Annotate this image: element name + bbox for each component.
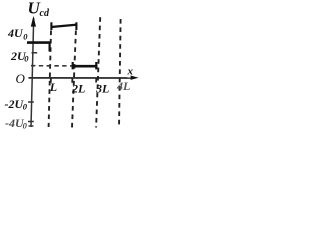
x-axis arrowhead bbox=[131, 76, 139, 80]
svg-text:0: 0 bbox=[23, 31, 28, 41]
segment left end bar bbox=[72, 62, 74, 69]
svg-text:0: 0 bbox=[24, 54, 29, 64]
svg-text:4L: 4L bbox=[116, 79, 130, 93]
svg-text:0: 0 bbox=[23, 102, 28, 112]
x-axis bbox=[29, 77, 133, 79]
dashed horizontal reference line at 2U0 level bbox=[31, 65, 72, 67]
svg-text:0: 0 bbox=[23, 120, 28, 130]
dashed vertical line at 4L bbox=[119, 19, 121, 128]
svg-text:3L: 3L bbox=[95, 81, 109, 95]
svg-text:-2U: -2U bbox=[5, 97, 25, 111]
segment right end bar bbox=[95, 62, 97, 69]
y-axis arrowhead bbox=[31, 16, 36, 27]
waveform drop stub at L bbox=[48, 42, 50, 52]
svg-text:2L: 2L bbox=[71, 82, 85, 96]
svg-text:4U: 4U bbox=[7, 26, 24, 40]
y-axis bottom foot bbox=[29, 125, 34, 127]
tick -4U0 bbox=[28, 121, 34, 123]
tick +2U0 bbox=[32, 52, 38, 54]
svg-text:cd: cd bbox=[40, 8, 50, 19]
waveform segment 2L to 3L bbox=[72, 65, 98, 68]
dashed vertical line at 2L bbox=[72, 31, 76, 128]
staple left end bar bbox=[50, 22, 52, 30]
tick -2U0 bbox=[28, 101, 34, 103]
waveform staple segment L to 2L (top) bbox=[51, 25, 77, 27]
dashed vertical line at L bbox=[49, 31, 51, 128]
waveform segment 0 to L bbox=[27, 41, 50, 44]
svg-text:x: x bbox=[127, 65, 134, 77]
svg-text:O: O bbox=[16, 71, 26, 86]
tick below x-axis at L bbox=[50, 79, 52, 83]
y-axis bbox=[31, 18, 34, 127]
tick below x-axis at 2L bbox=[71, 79, 73, 83]
dashed vertical line at 3L bbox=[96, 17, 100, 127]
svg-text:L: L bbox=[49, 80, 57, 94]
staple right end bar bbox=[75, 22, 77, 30]
tick below x-axis at 3L bbox=[95, 79, 97, 83]
